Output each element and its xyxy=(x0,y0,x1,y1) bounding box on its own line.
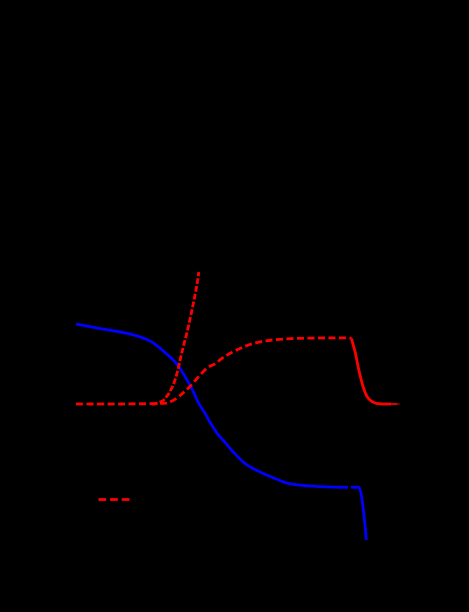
red curve terminal drop (solid appearance) xyxy=(352,339,392,405)
red curve fading tail end xyxy=(391,403,398,405)
red dashed steep exponential curve, clipped at plot top xyxy=(152,272,199,404)
blue solid curve (declining sigmoid), main segment xyxy=(76,324,348,487)
blue solid curve end segment with terminal drop xyxy=(351,487,366,540)
red dashed rising sigmoid curve xyxy=(76,338,352,404)
legend red dashed line sample xyxy=(99,498,131,501)
